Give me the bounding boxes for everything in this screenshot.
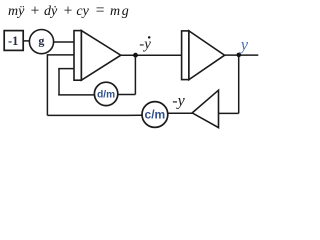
svg-text:cy: cy xyxy=(76,4,89,19)
inverter amplifier U3 (left pointing) xyxy=(192,90,218,127)
wire to d/m right side xyxy=(118,94,135,96)
label -y-dot xyxy=(139,36,151,52)
constant source g xyxy=(29,29,53,53)
integrator U1 input bar xyxy=(74,31,81,81)
wire integrator 1 middle input from outer feedback xyxy=(47,54,74,56)
label -y xyxy=(172,93,185,110)
gain block K1 value -1 xyxy=(4,31,23,51)
svg-text:=: = xyxy=(95,2,105,19)
svg-text:mg: mg xyxy=(110,4,129,19)
wire outer feedback bottom to c/m xyxy=(47,114,142,116)
wire up inner feedback xyxy=(58,69,60,95)
wire integrator 1 output bus to integrator 2 xyxy=(121,54,182,56)
svg-text:-y: -y xyxy=(139,37,151,53)
gain circle d/m xyxy=(94,82,117,105)
svg-text:d/m: d/m xyxy=(97,89,115,100)
svg-text:mÿ: mÿ xyxy=(8,4,25,19)
svg-text:g: g xyxy=(38,34,44,48)
node B junction dot (y node) xyxy=(237,53,242,58)
wire inverter input from right vertical xyxy=(219,112,239,114)
label y output xyxy=(239,35,249,54)
wire node A down to d/m xyxy=(134,55,136,94)
gain circle c/m xyxy=(142,102,168,128)
wire from g to integrator 1 input bar xyxy=(54,41,75,43)
svg-text:c/m: c/m xyxy=(145,108,166,122)
svg-text:y: y xyxy=(239,35,249,54)
integrator U1 triangle xyxy=(81,31,120,81)
wire from d/m left side xyxy=(58,94,94,96)
svg-text:-y: -y xyxy=(172,93,185,110)
wire outer feedback vertical xyxy=(46,54,48,115)
integrator U2 input bar xyxy=(182,31,189,80)
wire from -1 block to g source xyxy=(23,40,29,42)
equation label: m y-dded + d y-dot + c y = m g xyxy=(8,2,129,19)
wire into integrator 1 lower input xyxy=(58,68,74,70)
node A junction dot (-y-dot node) xyxy=(133,53,138,58)
integrator U2 triangle xyxy=(189,31,225,80)
svg-text:dẏ: dẏ xyxy=(44,4,58,19)
wire integrator 2 output to right edge xyxy=(225,54,259,56)
wire right vertical from node B down xyxy=(238,55,240,114)
svg-text:+: + xyxy=(63,2,73,19)
svg-text:+: + xyxy=(30,2,40,19)
wire c/m to inverter output xyxy=(168,112,193,114)
svg-text:-1: -1 xyxy=(8,34,18,48)
